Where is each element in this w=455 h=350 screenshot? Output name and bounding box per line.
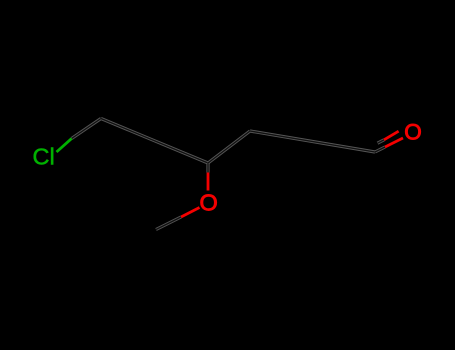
svg-text:O: O	[200, 190, 218, 216]
bond Cl-CH2 (carbon half)	[72, 119, 101, 139]
bond O-CH3 (carbon half)	[156, 217, 181, 230]
C=O double bond second stroke (red part)	[384, 131, 399, 140]
svg-text:O: O	[404, 119, 422, 144]
bond Cl-CH2 (green half)	[57, 138, 72, 152]
bond CH-O ether (carbon half)	[206, 163, 209, 173]
bond CH-O ether (red half)	[207, 173, 210, 191]
bond CH(OMe)-CH2 rising to peak	[208, 131, 250, 163]
svg-text:Cl: Cl	[33, 144, 55, 170]
C=O double bond main line (red part)	[385, 138, 403, 147]
bond chain CH2-CH2-CH(OMe) two collinear bonds	[101, 119, 208, 164]
bond chain CH2-CH2-CHO long straight descent	[250, 131, 375, 152]
bond O-CH3 (red half)	[181, 208, 200, 218]
C=O double bond second stroke (carbon part)	[378, 140, 385, 143]
C=O double bond main line (carbon part)	[375, 147, 385, 152]
